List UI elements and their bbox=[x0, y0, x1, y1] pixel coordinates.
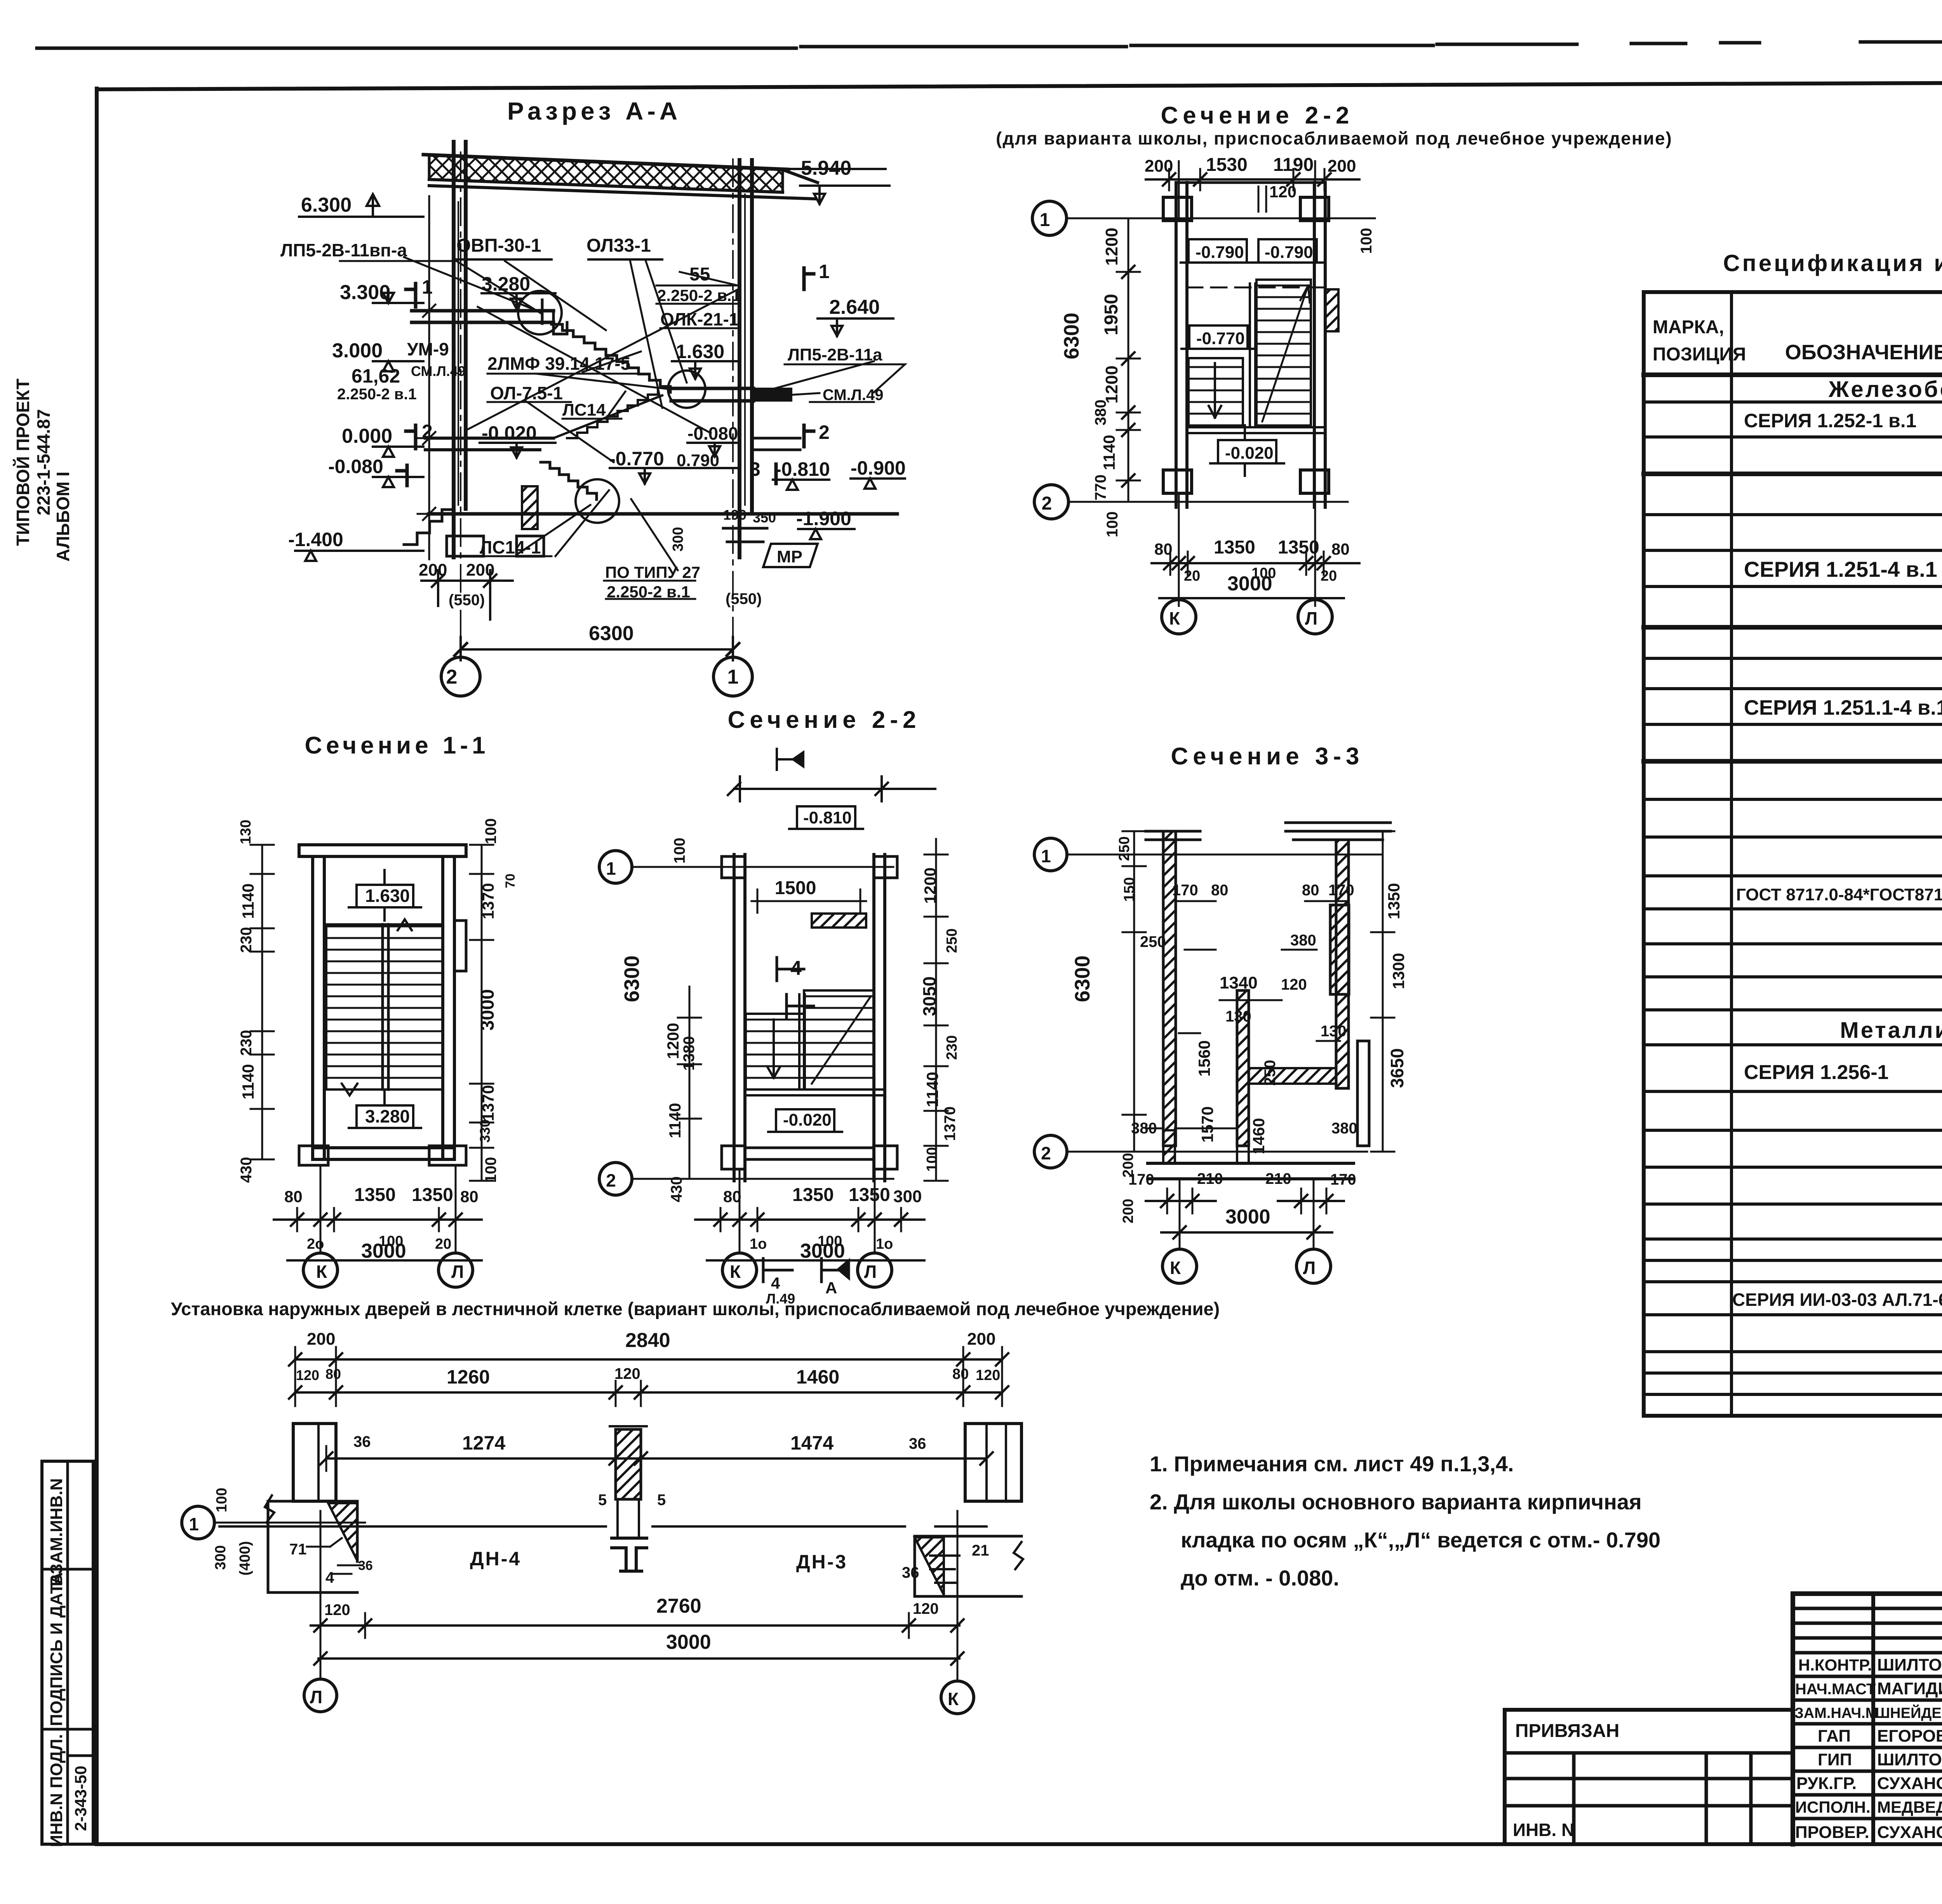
svg-text:ТИПОВОЙ ПРОЕКТ: ТИПОВОЙ ПРОЕКТ bbox=[13, 379, 33, 546]
axis lines bbox=[1066, 218, 1375, 219]
svg-text:1о: 1о bbox=[750, 1236, 767, 1252]
svg-text:100: 100 bbox=[482, 1157, 499, 1183]
top torn dashed edge line bbox=[37, 40, 1942, 48]
svg-text:70: 70 bbox=[503, 874, 518, 888]
svg-text:223-1-544.87: 223-1-544.87 bbox=[33, 409, 54, 515]
svg-text:3.280: 3.280 bbox=[482, 273, 530, 295]
detail circles bbox=[518, 291, 562, 334]
walls bbox=[734, 855, 745, 1181]
svg-text:-0.020: -0.020 bbox=[1225, 444, 1274, 463]
svg-text:СУХАНОВА: СУХАНОВА bbox=[1877, 1823, 1942, 1842]
vertical dim chain bbox=[1128, 218, 1129, 502]
svg-text:330: 330 bbox=[477, 1119, 493, 1143]
svg-text:770: 770 bbox=[1092, 475, 1109, 501]
flights bbox=[804, 990, 874, 1089]
svg-text:-0.900: -0.900 bbox=[851, 457, 906, 479]
svg-text:1340: 1340 bbox=[1220, 973, 1258, 992]
left hatched wall bbox=[1163, 831, 1176, 1146]
svg-text:71: 71 bbox=[289, 1541, 307, 1558]
section marks 1,2,3 bbox=[397, 284, 416, 486]
svg-text:3.300: 3.300 bbox=[340, 281, 390, 304]
svg-text:РУК.ГР.: РУК.ГР. bbox=[1796, 1774, 1857, 1793]
svg-text:1460: 1460 bbox=[1249, 1118, 1268, 1154]
svg-text:6300: 6300 bbox=[1071, 955, 1094, 1002]
svg-text:200: 200 bbox=[1328, 157, 1356, 176]
svg-text:К: К bbox=[1169, 608, 1180, 628]
svg-text:ДН-4: ДН-4 bbox=[470, 1548, 521, 1570]
svg-text:250: 250 bbox=[1140, 933, 1166, 950]
left dim chain bbox=[678, 987, 701, 1179]
svg-text:Л: Л bbox=[1303, 1258, 1316, 1278]
svg-text:120: 120 bbox=[976, 1367, 1000, 1384]
svg-text:0.000: 0.000 bbox=[342, 425, 392, 447]
svg-text:ОБОЗНАЧЕНИЕ: ОБОЗНАЧЕНИЕ bbox=[1785, 341, 1942, 364]
svg-text:ВЗАМ.ИНВ.N: ВЗАМ.ИНВ.N bbox=[47, 1478, 66, 1587]
svg-text:1200: 1200 bbox=[921, 867, 939, 903]
svg-text:1: 1 bbox=[606, 858, 616, 879]
top dim line bbox=[1146, 178, 1359, 181]
svg-text:4: 4 bbox=[771, 1274, 780, 1292]
svg-text:Сечение 2-2: Сечение 2-2 bbox=[1161, 102, 1354, 129]
svg-text:200: 200 bbox=[1145, 157, 1173, 176]
svg-text:3000: 3000 bbox=[1227, 573, 1272, 595]
specification table bbox=[1644, 250, 1942, 1416]
svg-text:6300: 6300 bbox=[620, 955, 644, 1002]
svg-text:80: 80 bbox=[1331, 540, 1350, 558]
svg-text:20: 20 bbox=[1321, 568, 1337, 584]
svg-text:230: 230 bbox=[238, 1030, 255, 1056]
axis 1 bbox=[182, 1506, 214, 1539]
svg-text:380: 380 bbox=[1092, 400, 1109, 426]
right dim chain bbox=[1371, 831, 1394, 1152]
svg-text:20: 20 bbox=[435, 1236, 451, 1252]
svg-text:-1.400: -1.400 bbox=[288, 529, 343, 550]
right stair flight bbox=[1256, 280, 1311, 427]
top slabs bbox=[1146, 831, 1200, 840]
left dim chain bbox=[261, 845, 263, 1159]
svg-text:80: 80 bbox=[1154, 540, 1173, 558]
section A-A drawing bbox=[280, 97, 906, 696]
walls bbox=[313, 856, 324, 1159]
svg-text:1350: 1350 bbox=[1278, 537, 1319, 558]
railing post at 3.280 landing bbox=[541, 300, 544, 324]
mid stringer bbox=[1250, 284, 1255, 427]
svg-text:Н.КОНТР.: Н.КОНТР. bbox=[1798, 1656, 1872, 1674]
bottom dims bbox=[695, 1218, 924, 1221]
bottom dims bbox=[1152, 562, 1359, 564]
svg-text:-0.020: -0.020 bbox=[783, 1110, 832, 1130]
bottom area bbox=[1146, 1128, 1237, 1130]
svg-text:5.940: 5.940 bbox=[801, 157, 851, 179]
svg-text:ОВП-30-1: ОВП-30-1 bbox=[456, 235, 541, 256]
svg-text:100: 100 bbox=[214, 1488, 230, 1512]
inner hatched channel bbox=[1237, 990, 1249, 1146]
flight 2: ground up to 1.630 bbox=[553, 395, 662, 438]
svg-text:20: 20 bbox=[1184, 568, 1200, 584]
svg-text:3050: 3050 bbox=[919, 976, 940, 1016]
svg-text:2: 2 bbox=[422, 421, 433, 442]
left corner wall bbox=[268, 1501, 357, 1592]
1274/1474 dim line bbox=[326, 1457, 987, 1460]
svg-text:1370: 1370 bbox=[479, 1085, 497, 1121]
svg-text:СЕРИЯ ИИ-03-03 АЛ.71-64: СЕРИЯ ИИ-03-03 АЛ.71-64 bbox=[1732, 1290, 1942, 1310]
svg-text:300: 300 bbox=[212, 1545, 229, 1570]
svg-text:200: 200 bbox=[1120, 1199, 1136, 1223]
svg-text:МЕДВЕДЕВА: МЕДВЕДЕВА bbox=[1877, 1798, 1942, 1816]
svg-text:3.280: 3.280 bbox=[365, 1106, 410, 1126]
svg-text:ШИЛТОВА: ШИЛТОВА bbox=[1877, 1750, 1942, 1769]
svg-text:ИНВ.N ПОДЛ.: ИНВ.N ПОДЛ. bbox=[47, 1734, 66, 1847]
landing lines bbox=[1187, 427, 1325, 433]
svg-text:380: 380 bbox=[1290, 932, 1316, 949]
1500 dim bbox=[752, 889, 866, 913]
svg-text:Л: Л bbox=[864, 1262, 877, 1282]
svg-text:Л: Л bbox=[451, 1262, 464, 1282]
svg-text:170: 170 bbox=[1328, 882, 1354, 899]
intermediate landing 1.630 bbox=[671, 388, 753, 401]
svg-text:-0.770: -0.770 bbox=[1196, 329, 1245, 348]
ground floor slab bbox=[425, 438, 553, 450]
svg-text:2: 2 bbox=[446, 666, 458, 688]
main border: left bbox=[95, 89, 99, 1844]
svg-text:1350: 1350 bbox=[412, 1185, 453, 1205]
label underlines bbox=[340, 261, 542, 314]
svg-text:190: 190 bbox=[723, 507, 747, 523]
main border: top bbox=[97, 81, 1942, 89]
svg-text:1530: 1530 bbox=[1206, 155, 1248, 175]
svg-text:1200: 1200 bbox=[664, 1023, 682, 1059]
right outer wall lower bbox=[1357, 1041, 1369, 1146]
svg-text:100: 100 bbox=[1104, 512, 1121, 538]
left margin vertical stamps bbox=[42, 1461, 93, 1844]
svg-text:Установка наружных дверей в: Установка наружных дверей в лестничной к… bbox=[171, 1298, 1220, 1319]
svg-text:К: К bbox=[316, 1262, 327, 1282]
svg-text:(550): (550) bbox=[726, 590, 762, 607]
level marks in drawing bbox=[482, 293, 555, 309]
svg-text:1.630: 1.630 bbox=[676, 341, 724, 362]
svg-text:ГИП: ГИП bbox=[1818, 1750, 1852, 1769]
right corner wall bbox=[915, 1536, 1021, 1596]
svg-text:55: 55 bbox=[689, 264, 710, 285]
stair treads bbox=[326, 924, 443, 1089]
svg-text:170: 170 bbox=[1330, 1171, 1356, 1188]
svg-text:1350: 1350 bbox=[792, 1185, 834, 1205]
svg-text:80: 80 bbox=[1302, 882, 1319, 899]
svg-text:Л: Л bbox=[1305, 608, 1317, 628]
section 2-2 middle plan bbox=[599, 707, 960, 1307]
bottom dimension 6300 bbox=[461, 648, 733, 651]
svg-text:250: 250 bbox=[1262, 1060, 1279, 1086]
svg-text:1350: 1350 bbox=[1214, 537, 1255, 558]
title block bbox=[1505, 1590, 1942, 1874]
svg-text:МАРКА,: МАРКА, bbox=[1653, 317, 1724, 338]
svg-text:120: 120 bbox=[614, 1365, 640, 1382]
svg-text:СЕРИЯ 1.251.1-4 в.1: СЕРИЯ 1.251.1-4 в.1 bbox=[1744, 696, 1942, 719]
svg-text:120: 120 bbox=[1269, 183, 1296, 201]
svg-text:ПОЗИЦИЯ: ПОЗИЦИЯ bbox=[1653, 344, 1746, 365]
landing zones bbox=[357, 885, 413, 907]
svg-text:1260: 1260 bbox=[447, 1366, 490, 1388]
basement flight bbox=[541, 462, 597, 499]
svg-text:5: 5 bbox=[657, 1492, 666, 1509]
svg-text:80: 80 bbox=[952, 1366, 969, 1382]
svg-text:210: 210 bbox=[1197, 1170, 1223, 1187]
svg-text:3: 3 bbox=[750, 458, 760, 480]
svg-text:3.000: 3.000 bbox=[332, 339, 383, 362]
svg-text:61,62: 61,62 bbox=[352, 365, 400, 387]
svg-text:120: 120 bbox=[296, 1367, 319, 1383]
bottom dims bbox=[311, 1624, 959, 1627]
svg-text:ЛП5-2В-11а: ЛП5-2В-11а bbox=[788, 345, 882, 364]
svg-text:ЗАМ.НАЧ.М: ЗАМ.НАЧ.М bbox=[1794, 1705, 1878, 1721]
lower right floor bbox=[429, 512, 897, 516]
svg-text:1: 1 bbox=[1040, 210, 1050, 230]
dims 200/200 near bottom left bbox=[421, 570, 513, 620]
svg-text:1140: 1140 bbox=[239, 883, 257, 919]
svg-text:430: 430 bbox=[668, 1177, 685, 1203]
main border: bottom bbox=[97, 1842, 1942, 1846]
svg-text:2.250-2 в.1: 2.250-2 в.1 bbox=[337, 386, 417, 403]
svg-text:6300: 6300 bbox=[589, 622, 634, 645]
svg-text:0.790: 0.790 bbox=[677, 451, 719, 470]
top slab bbox=[299, 845, 466, 856]
svg-text:Сечение 1-1: Сечение 1-1 bbox=[305, 732, 489, 759]
svg-text:100: 100 bbox=[482, 818, 499, 844]
svg-text:430: 430 bbox=[238, 1157, 255, 1183]
svg-text:1350: 1350 bbox=[354, 1185, 396, 1205]
svg-text:200: 200 bbox=[466, 560, 494, 580]
svg-text:200: 200 bbox=[307, 1330, 335, 1349]
svg-text:Спецификация изделий на лес: Спецификация изделий на лестницу N2 bbox=[1723, 250, 1942, 276]
svg-text:ПРИВЯЗАН: ПРИВЯЗАН bbox=[1515, 1721, 1619, 1741]
svg-text:100: 100 bbox=[924, 1147, 940, 1171]
svg-text:21: 21 bbox=[972, 1542, 989, 1559]
svg-text:300: 300 bbox=[670, 527, 686, 552]
top dim line bbox=[728, 776, 935, 801]
svg-text:2: 2 bbox=[1041, 1143, 1051, 1163]
svg-text:1950: 1950 bbox=[1101, 294, 1122, 336]
svg-text:1140: 1140 bbox=[239, 1064, 257, 1099]
svg-text:5: 5 bbox=[598, 1492, 607, 1509]
svg-text:ШИЛТОВА: ШИЛТОВА bbox=[1877, 1655, 1942, 1674]
svg-text:100: 100 bbox=[1358, 228, 1375, 254]
svg-text:1: 1 bbox=[727, 666, 739, 688]
svg-text:2о: 2о bbox=[307, 1236, 324, 1252]
svg-text:150: 150 bbox=[1121, 877, 1138, 902]
long thin leader diagonals bbox=[404, 257, 874, 570]
svg-text:210: 210 bbox=[1265, 1170, 1291, 1187]
svg-text:СУХАНОВА: СУХАНОВА bbox=[1877, 1774, 1942, 1793]
svg-text:1380: 1380 bbox=[680, 1036, 698, 1071]
signature sub-table grid bbox=[1791, 1594, 1795, 1844]
boxed labels bbox=[797, 806, 855, 829]
svg-text:1370: 1370 bbox=[941, 1107, 959, 1141]
svg-text:130: 130 bbox=[1225, 1008, 1251, 1025]
svg-text:Металлические изделия: Металлические изделия bbox=[1840, 1018, 1942, 1043]
svg-text:3650: 3650 bbox=[1387, 1048, 1407, 1088]
top dim lines bbox=[295, 1358, 1002, 1361]
svg-text:1460: 1460 bbox=[796, 1366, 839, 1388]
svg-text:1300: 1300 bbox=[1389, 953, 1408, 989]
svg-text:-0.770: -0.770 bbox=[609, 448, 664, 470]
right hatched wall upper bbox=[1336, 840, 1349, 1088]
svg-text:К: К bbox=[730, 1262, 741, 1282]
roof hatched band bbox=[429, 155, 783, 192]
svg-text:80: 80 bbox=[1211, 882, 1229, 899]
svg-text:Сечение 2-2: Сечение 2-2 bbox=[727, 707, 921, 733]
svg-text:36: 36 bbox=[358, 1558, 373, 1573]
boxed level labels bbox=[1189, 239, 1247, 263]
svg-text:300: 300 bbox=[893, 1187, 922, 1206]
svg-text:3000: 3000 bbox=[666, 1631, 711, 1653]
svg-text:6.300: 6.300 bbox=[301, 194, 352, 216]
svg-text:120: 120 bbox=[324, 1601, 350, 1619]
svg-text:80: 80 bbox=[723, 1187, 741, 1206]
svg-text:1274: 1274 bbox=[462, 1432, 505, 1454]
svg-text:1о: 1о bbox=[876, 1236, 893, 1252]
svg-text:Сечение 3-3: Сечение 3-3 bbox=[1171, 743, 1364, 770]
svg-text:36: 36 bbox=[353, 1433, 371, 1450]
svg-text:1500: 1500 bbox=[775, 878, 816, 898]
svg-text:2.640: 2.640 bbox=[829, 296, 880, 318]
svg-text:170: 170 bbox=[1128, 1171, 1154, 1188]
section 1-1 plan bbox=[238, 732, 518, 1287]
hatched lintel bbox=[812, 914, 866, 928]
svg-text:2: 2 bbox=[1042, 493, 1052, 514]
svg-text:250: 250 bbox=[1116, 836, 1133, 861]
svg-text:СЕРИЯ 1.256-1: СЕРИЯ 1.256-1 bbox=[1744, 1061, 1888, 1084]
svg-text:2840: 2840 bbox=[625, 1329, 670, 1352]
right hatched block bbox=[1325, 289, 1338, 331]
svg-text:1: 1 bbox=[189, 1514, 199, 1534]
svg-text:1350: 1350 bbox=[849, 1185, 890, 1205]
svg-text:1570: 1570 bbox=[1198, 1106, 1216, 1142]
svg-text:СЕРИЯ 1.251-4 в.1: СЕРИЯ 1.251-4 в.1 bbox=[1744, 557, 1937, 581]
svg-text:230: 230 bbox=[238, 927, 255, 953]
svg-text:1140: 1140 bbox=[1100, 435, 1118, 470]
small dim lines bbox=[1177, 901, 1348, 1000]
svg-text:А: А bbox=[825, 1279, 837, 1297]
long lintel lines bbox=[219, 1525, 987, 1528]
svg-text:К: К bbox=[948, 1689, 959, 1709]
svg-text:-0.080: -0.080 bbox=[328, 456, 383, 477]
svg-text:2: 2 bbox=[606, 1170, 616, 1190]
svg-text:1350: 1350 bbox=[1385, 883, 1403, 919]
svg-text:-0.790: -0.790 bbox=[1265, 243, 1313, 262]
svg-text:200: 200 bbox=[967, 1330, 995, 1349]
svg-text:1474: 1474 bbox=[790, 1432, 834, 1454]
right wall pilaster mid bbox=[454, 921, 466, 971]
svg-text:СМ.Л.49: СМ.Л.49 bbox=[823, 386, 883, 404]
svg-text:120: 120 bbox=[1281, 976, 1307, 993]
svg-text:-0.020: -0.020 bbox=[482, 422, 537, 444]
svg-text:230: 230 bbox=[944, 1035, 960, 1060]
svg-text:350: 350 bbox=[753, 510, 776, 526]
4-4 section marks bbox=[777, 957, 814, 1018]
svg-text:1140: 1140 bbox=[923, 1072, 941, 1107]
svg-text:1: 1 bbox=[422, 276, 433, 298]
svg-text:УМ-9: УМ-9 bbox=[407, 339, 449, 359]
svg-text:ГАП: ГАП bbox=[1818, 1726, 1851, 1746]
svg-text:120: 120 bbox=[913, 1600, 939, 1617]
axis circles bbox=[441, 657, 480, 696]
svg-text:36: 36 bbox=[902, 1564, 919, 1581]
svg-text:200: 200 bbox=[419, 560, 447, 580]
middle T detail bbox=[612, 1538, 647, 1571]
door installation drawing bbox=[171, 1298, 1220, 1714]
svg-text:80: 80 bbox=[284, 1187, 303, 1206]
svg-text:1. Примечания см. лист 49 п.: 1. Примечания см. лист 49 п.1,3,4. bbox=[1150, 1451, 1514, 1476]
entrance steps outside left wall bbox=[404, 510, 454, 545]
small leader marks left bbox=[307, 1538, 342, 1547]
svg-text:кладка по осям „К“,„Л“ ведет: кладка по осям „К“,„Л“ ведется с отм.- 0… bbox=[1181, 1528, 1660, 1552]
svg-text:380: 380 bbox=[1331, 1120, 1357, 1137]
upper right hatched block bbox=[1330, 905, 1349, 994]
svg-text:ЛС14-1: ЛС14-1 bbox=[480, 537, 541, 557]
right dim chain bbox=[935, 839, 937, 1181]
svg-text:2. Для школы основного вари: 2. Для школы основного варианта кирпична… bbox=[1150, 1490, 1642, 1514]
second floor slab 3.300 bbox=[412, 311, 553, 322]
right dim chain bbox=[481, 845, 483, 1181]
svg-text:(550): (550) bbox=[449, 592, 485, 609]
svg-text:-0.790: -0.790 bbox=[1195, 243, 1244, 262]
svg-text:МР: МР bbox=[777, 547, 802, 566]
svg-text:3000: 3000 bbox=[361, 1240, 406, 1262]
section 3-3 plan bbox=[1034, 743, 1408, 1283]
top landing edge dashed bbox=[1187, 287, 1325, 289]
vertical dim chain left bbox=[1133, 831, 1135, 1152]
right door frame bbox=[965, 1424, 1021, 1501]
svg-text:до отм. - 0.080.: до отм. - 0.080. bbox=[1181, 1566, 1339, 1590]
svg-text:СМ.Л.49: СМ.Л.49 bbox=[411, 363, 466, 379]
svg-text:2: 2 bbox=[819, 421, 830, 443]
svg-text:3000: 3000 bbox=[1225, 1206, 1270, 1228]
eaves / top slab lines bbox=[429, 179, 816, 199]
svg-text:2760: 2760 bbox=[656, 1595, 701, 1617]
svg-text:1140: 1140 bbox=[666, 1103, 684, 1138]
level marks right bbox=[800, 186, 889, 204]
svg-text:ИНВ. N: ИНВ. N bbox=[1513, 1820, 1574, 1840]
svg-text:100: 100 bbox=[671, 838, 688, 864]
svg-text:80: 80 bbox=[325, 1366, 341, 1382]
svg-text:130: 130 bbox=[238, 820, 254, 844]
svg-text:380: 380 bbox=[1131, 1120, 1157, 1137]
svg-text:К: К bbox=[1170, 1258, 1181, 1278]
svg-text:ШНЕЙДЕРМАН: ШНЕЙДЕРМАН bbox=[1875, 1704, 1942, 1721]
svg-text:4: 4 bbox=[790, 957, 802, 980]
svg-text:ЕГОРОВ: ЕГОРОВ bbox=[1877, 1726, 1942, 1746]
svg-text:ОЛ-7.5-1: ОЛ-7.5-1 bbox=[490, 383, 563, 403]
svg-text:1.630: 1.630 bbox=[365, 886, 410, 906]
svg-text:6300: 6300 bbox=[1060, 313, 1083, 359]
svg-text:ЛП5-2В-11вп-а: ЛП5-2В-11вп-а bbox=[280, 240, 407, 260]
svg-text:2.250-2 в.1: 2.250-2 в.1 bbox=[607, 583, 690, 601]
footings bbox=[447, 536, 544, 556]
svg-text:(400): (400) bbox=[237, 1541, 253, 1576]
left door frame bbox=[293, 1424, 336, 1501]
walls bbox=[1176, 183, 1187, 507]
level marks left bbox=[299, 194, 423, 217]
svg-text:1: 1 bbox=[1041, 846, 1051, 866]
hatched pier below ground bbox=[522, 486, 538, 529]
landing bbox=[745, 1089, 885, 1095]
svg-text:1560: 1560 bbox=[1195, 1040, 1213, 1076]
svg-text:СЕРИЯ 1.252-1 в.1: СЕРИЯ 1.252-1 в.1 bbox=[1744, 410, 1916, 432]
privyazan table bbox=[1505, 1708, 1793, 1712]
svg-text:Железобетонные изделия: Железобетонные изделия bbox=[1828, 377, 1942, 402]
svg-text:1: 1 bbox=[819, 261, 830, 282]
axis verticals to circles bbox=[320, 1511, 957, 1680]
